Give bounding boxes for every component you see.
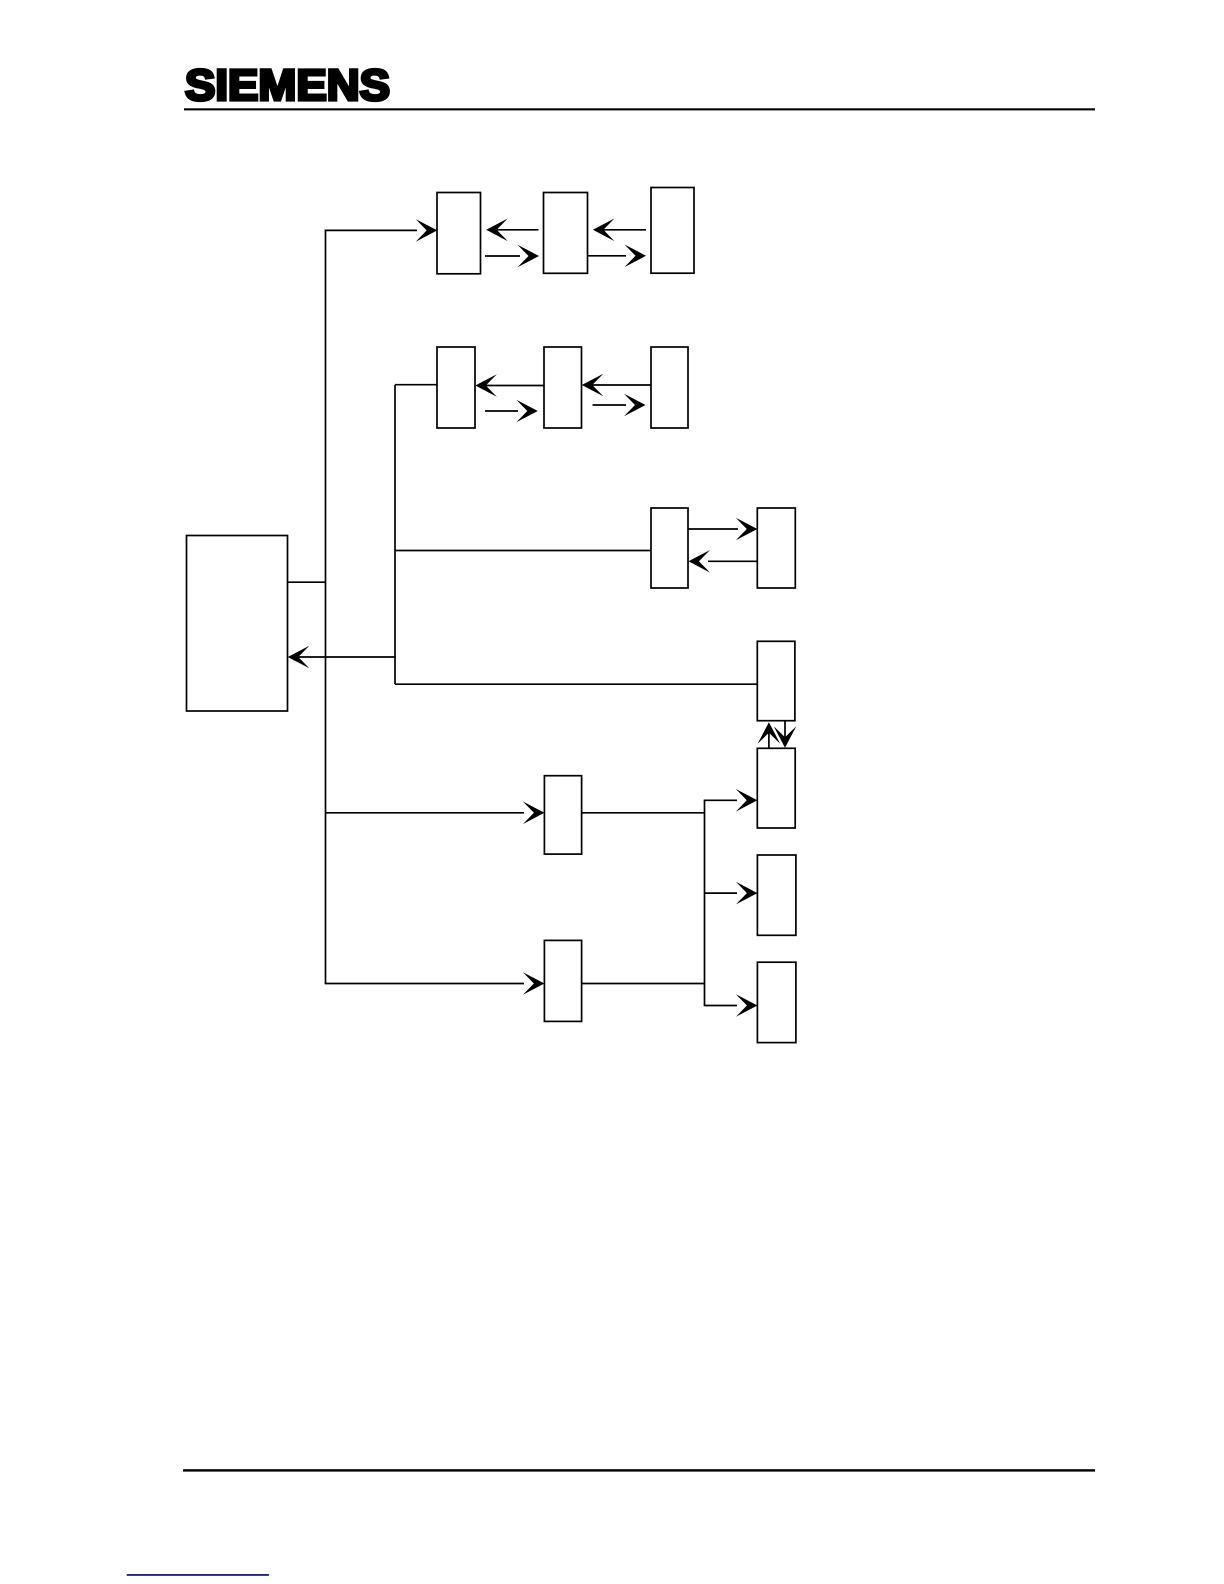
wire arrow B to A bbox=[689, 550, 758, 573]
box I (mid lower 2) bbox=[544, 940, 581, 1021]
wire arrow into H bbox=[704, 994, 758, 1017]
wire arrow R1B to R1C bbox=[588, 245, 647, 268]
box B (pair right) bbox=[757, 508, 795, 588]
wire entry row1 bbox=[325, 219, 438, 242]
wire arrow A to B bbox=[688, 518, 757, 541]
box R2A (row2 left) bbox=[437, 347, 475, 428]
wire branch to pair A bbox=[395, 550, 651, 552]
wire arrow R1B to R1A bbox=[486, 219, 538, 242]
wire arrow R1C to R1B bbox=[593, 219, 646, 242]
svg-text:SIEMENS: SIEMENS bbox=[185, 62, 390, 110]
wire entry box I bbox=[325, 972, 545, 995]
box R1A (row1 left) bbox=[437, 193, 481, 274]
box R1B (row1 middle) bbox=[544, 193, 588, 274]
wire trunk2 vertical bbox=[394, 385, 396, 685]
wire arrow R2A to R2B bbox=[485, 400, 538, 423]
box R2B (row2 middle) bbox=[544, 347, 582, 428]
wire E output bbox=[582, 812, 705, 814]
wire arrow R1A to R1B bbox=[485, 245, 539, 268]
box F (right column 2) bbox=[757, 748, 795, 828]
box C (right column 1) bbox=[757, 641, 795, 720]
wire arrow R2C to R2B bbox=[582, 374, 651, 397]
header rule bbox=[184, 108, 1095, 110]
wire right bus vertical bbox=[704, 800, 706, 1005]
SIEMENS logo bbox=[185, 62, 390, 110]
box H (right column 4) bbox=[757, 962, 796, 1042]
wire arrow R2B to R2C bbox=[593, 394, 646, 417]
box R1C (row1 right) bbox=[651, 188, 694, 274]
wire arrow into G bbox=[705, 882, 758, 905]
wire arrow F to C (down) bbox=[774, 721, 797, 748]
wire trunk1 vertical bbox=[325, 230, 327, 984]
footer rule bbox=[183, 1469, 1095, 1471]
wire arrow C to F (up) bbox=[758, 722, 781, 748]
wire I output bbox=[582, 983, 705, 985]
wire entry row2 bbox=[395, 384, 437, 386]
box A (pair left) bbox=[651, 508, 688, 588]
wire arrow into F bbox=[704, 789, 758, 812]
box E (mid lower 1) bbox=[544, 776, 581, 854]
box R2C (row2 right) bbox=[651, 347, 688, 428]
box G (right column 3) bbox=[757, 855, 796, 935]
wire arrow R2B to R2A bbox=[475, 374, 544, 397]
footer link underline bbox=[127, 1574, 269, 1576]
wire arrow into bigbox bbox=[288, 646, 396, 669]
wire entry box E bbox=[326, 802, 545, 825]
wire branch to box C bbox=[395, 683, 757, 685]
box U1 (large left block) bbox=[187, 536, 288, 712]
wire connector bigbox to trunk1 bbox=[288, 581, 327, 583]
